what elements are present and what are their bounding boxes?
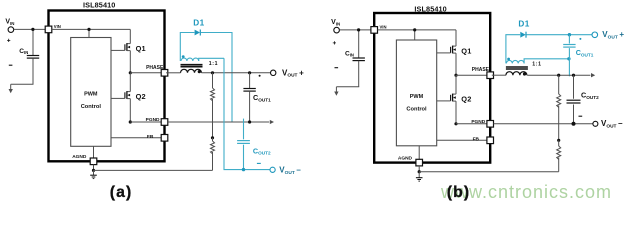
svg-text:PHASE: PHASE [472, 67, 490, 73]
wire drain Q1 [455, 30, 457, 46]
svg-text:VOUT +: VOUT + [282, 68, 304, 78]
svg-text:1:1: 1:1 [532, 62, 541, 68]
pin FB [437, 136, 494, 143]
svg-text:PGND: PGND [146, 117, 160, 123]
inductor L2 secondary winding [506, 60, 524, 63]
node PHASE junction [129, 71, 132, 74]
svg-text:D1: D1 [518, 20, 529, 29]
svg-text:AGND: AGND [72, 154, 87, 160]
svg-text:PHASE: PHASE [146, 65, 164, 71]
minus mark input [9, 64, 13, 66]
core bars transformer [181, 65, 203, 67]
wire PHASE to inductor b [492, 74, 506, 76]
svg-text:FB: FB [473, 136, 480, 142]
inductor L2 primary winding [506, 72, 527, 76]
label (b) [447, 184, 470, 201]
svg-text:(a): (a) [110, 184, 133, 201]
transistor Q2 [111, 91, 146, 101]
label COUT1 b [576, 48, 594, 57]
svg-text:COUT2: COUT2 [581, 90, 599, 99]
pin PGND [130, 117, 168, 125]
wire D1 anode loop b [506, 35, 520, 64]
wire drain Q2 [129, 73, 131, 92]
svg-text:VIN: VIN [5, 18, 14, 25]
label VIN input [331, 19, 340, 26]
pin VIN [371, 25, 387, 34]
transistor Q2 [437, 94, 472, 104]
capacitor CIN [27, 29, 39, 84]
wire secondary step [199, 58, 224, 61]
pin VIN [45, 24, 61, 33]
svg-text:VIN: VIN [54, 24, 61, 29]
svg-text:VOUT –: VOUT – [279, 165, 301, 175]
svg-text:FB: FB [147, 134, 154, 140]
IC U1 box ISL85410 [374, 13, 490, 163]
svg-text:VIN: VIN [331, 19, 340, 26]
node COUT1 junction top [248, 71, 251, 74]
svg-text:VOUT –: VOUT – [601, 119, 623, 129]
wire drain Q1 [129, 29, 131, 43]
label D1 [193, 18, 204, 27]
svg-text:PWM: PWM [410, 94, 424, 100]
resistor R1 feedback top [211, 73, 215, 138]
wire PHASE to inductor [166, 72, 180, 74]
terminal VOUT+ b [592, 32, 598, 38]
svg-text:PWM: PWM [84, 92, 98, 98]
svg-text:COUT2: COUT2 [253, 146, 271, 155]
label COUT2 [253, 146, 271, 155]
wire input ground [11, 84, 34, 89]
pin FB [111, 134, 168, 141]
wire Q2 source to PGND [129, 99, 132, 124]
ground PGND arrow [270, 120, 274, 124]
node primary polarity dot b [523, 72, 526, 75]
ground AGND earth [90, 175, 97, 178]
node secondary polarity dot [182, 55, 185, 58]
label COUT2 b [581, 90, 599, 99]
diode D1 b [520, 32, 526, 38]
plus mark input [333, 41, 336, 44]
node FB junction b [557, 139, 560, 142]
label COUT1 [253, 93, 271, 102]
pin AGND [398, 146, 423, 166]
pin PHASE [456, 67, 494, 78]
svg-text:1:1: 1:1 [209, 61, 218, 67]
label ISL85410 [414, 4, 446, 13]
svg-text:AGND: AGND [398, 156, 413, 162]
minus mark COUT2 b [579, 115, 583, 117]
minus mark input [335, 67, 339, 69]
ground output arrow b [591, 73, 595, 77]
wire D1 anode loop [180, 33, 194, 62]
resistor R3 feedback top b [557, 75, 561, 140]
svg-text:Q2: Q2 [136, 92, 146, 101]
terminal VIN input [8, 27, 45, 33]
plus mark COUT1 [259, 75, 261, 77]
capacitor COUT1 b [563, 35, 575, 77]
node divider junction b [557, 74, 560, 77]
wire D1 cathode to VOUT+ b [526, 34, 592, 36]
svg-text:ISL85410: ISL85410 [414, 4, 446, 13]
wire PGND net [168, 120, 269, 123]
ground AGND earth [416, 178, 423, 181]
capacitor COUT2 cyan [237, 119, 250, 170]
label VIN input [5, 18, 14, 25]
wire Q1 source to PHASE [129, 51, 131, 73]
wire AGND net [92, 165, 213, 176]
svg-text:CIN: CIN [345, 50, 354, 57]
svg-text:D1: D1 [193, 18, 204, 27]
svg-text:Q2: Q2 [461, 94, 471, 103]
label VOUT- b [601, 119, 623, 129]
pin PHASE [130, 65, 168, 76]
wire secondary step b [524, 59, 569, 64]
ground input arrow [334, 92, 338, 96]
node secondary polarity dot b [507, 58, 510, 61]
node COUT2 junction b [572, 74, 575, 77]
transistor Q1 [111, 43, 146, 53]
wire input ground [336, 87, 359, 92]
transistor Q1 [437, 46, 472, 56]
terminal VOUT- b [593, 121, 598, 126]
resistor R4 feedback bottom b [557, 140, 561, 171]
label CIN [19, 48, 28, 55]
node COUT1 junction b [568, 33, 571, 36]
svg-text:ISL85410: ISL85410 [83, 1, 115, 10]
svg-text:PGND: PGND [471, 119, 485, 125]
watermark cntronics [440, 182, 612, 202]
wire output node [202, 72, 271, 74]
node VIN junction [357, 28, 360, 31]
diode D1 [195, 30, 201, 36]
wire Q1 source to PHASE [455, 53, 457, 75]
svg-text:VIN: VIN [380, 25, 387, 30]
wire VIN internal [52, 28, 131, 38]
label (a) [110, 184, 133, 201]
svg-text:Q1: Q1 [461, 46, 471, 55]
label ISL85410 [83, 1, 115, 10]
pin PGND [456, 119, 494, 127]
IC U1 box ISL85410 [49, 11, 165, 162]
node divider junction [211, 71, 214, 74]
label D1 b [518, 20, 529, 29]
capacitor CIN [353, 30, 365, 87]
node FB junction [211, 136, 214, 139]
svg-text:CIN: CIN [19, 48, 28, 55]
inductor L1 secondary winding [181, 58, 199, 61]
wire VIN internal [378, 28, 457, 40]
svg-text:COUT1: COUT1 [576, 48, 594, 57]
wire Q2 source to PGND [454, 101, 457, 125]
ground input arrow [9, 89, 13, 93]
capacitor COUT1 [243, 73, 255, 122]
node secondary step junction b [567, 57, 570, 60]
block PWM Control [71, 38, 111, 147]
svg-text:Control: Control [81, 104, 102, 110]
svg-text:Control: Control [406, 107, 427, 113]
terminal VOUT- a [270, 167, 275, 172]
svg-text:(b): (b) [447, 184, 470, 201]
node VIN junction [31, 28, 34, 31]
minus mark COUT2 [257, 162, 261, 164]
terminal VIN input [334, 27, 371, 33]
svg-text:COUT1: COUT1 [253, 93, 271, 102]
wire VOUT- net [224, 58, 270, 171]
block PWM Control [396, 40, 436, 146]
wire D1 cathode to ground [201, 33, 232, 122]
resistor R2 feedback bottom [211, 138, 215, 171]
label VOUT+ a [282, 68, 304, 78]
inductor L1 primary winding [181, 69, 202, 73]
svg-text:VOUT +: VOUT + [602, 30, 624, 40]
node primary polarity dot [198, 70, 201, 73]
label VOUT+ b [602, 30, 624, 40]
node PHASE junction [454, 74, 457, 77]
plus mark input [7, 39, 10, 42]
plus mark COUT1 b [579, 38, 581, 40]
core bars transformer b [506, 67, 528, 69]
svg-text:Q1: Q1 [136, 44, 146, 53]
label CIN [345, 50, 354, 57]
wire output node b [527, 74, 590, 76]
label turns ratio 1:1 b [532, 62, 541, 68]
pin AGND [72, 146, 97, 164]
wire AGND net [418, 166, 559, 178]
label turns ratio 1:1 [209, 61, 218, 67]
terminal VOUT+ a [271, 70, 276, 75]
wire PGND VOUT- net b [494, 122, 593, 126]
wire drain Q2 [455, 75, 457, 94]
label VOUT- a [279, 165, 301, 175]
capacitor COUT2 b [567, 75, 581, 124]
